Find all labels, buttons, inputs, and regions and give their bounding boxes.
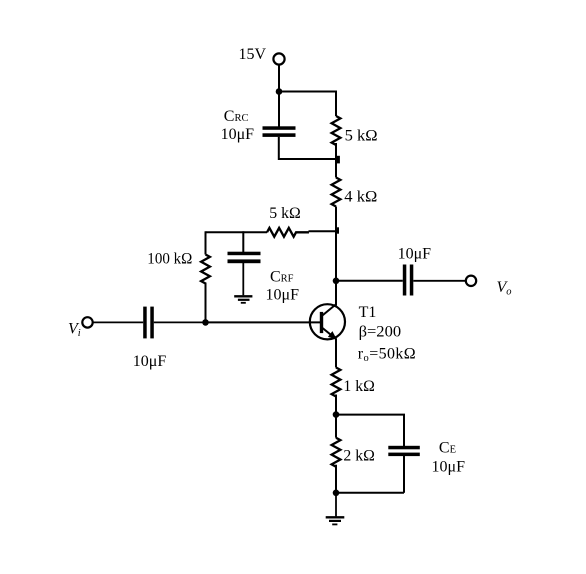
svg-text:10μF: 10μF xyxy=(266,287,300,304)
resistor 5k collector xyxy=(332,116,341,145)
svg-text:10μF: 10μF xyxy=(398,246,432,263)
wire Vi to cap xyxy=(93,321,144,323)
wire out cap to terminal xyxy=(413,280,466,282)
wire cap to base node xyxy=(154,321,206,323)
node collector junction xyxy=(333,278,340,285)
resistor 100k xyxy=(201,231,210,322)
wire to CE top xyxy=(336,415,404,446)
resistor 2k xyxy=(332,415,341,493)
node blob feedback junction xyxy=(336,227,339,233)
capacitor CRC xyxy=(263,126,296,137)
capacitor input 10uF xyxy=(143,307,154,339)
svg-text:5 kΩ: 5 kΩ xyxy=(345,127,378,144)
wire to ground xyxy=(335,493,337,517)
resistor 5k feedback xyxy=(267,228,309,237)
svg-text:10μF: 10μF xyxy=(133,353,167,370)
svg-text:10μF: 10μF xyxy=(221,126,255,143)
wire CRC bottom xyxy=(279,137,336,159)
wire supply top horizontal xyxy=(279,91,337,93)
wire collector xyxy=(335,231,337,305)
capacitor output 10uF xyxy=(403,265,414,296)
svg-text:1 kΩ: 1 kΩ xyxy=(343,378,375,395)
wire base xyxy=(206,321,322,323)
wire emitter down xyxy=(335,339,337,368)
node emitter junction top xyxy=(333,411,340,418)
node emitter junction bottom xyxy=(333,490,340,497)
terminal Vi xyxy=(82,317,92,327)
capacitor CRF xyxy=(228,231,261,295)
wire supply down xyxy=(278,65,280,92)
transistor T1 xyxy=(310,304,345,340)
wire 1k to node xyxy=(335,395,337,415)
svg-text:5 kΩ: 5 kΩ xyxy=(269,205,301,222)
wire CE bottom xyxy=(336,492,404,494)
svg-text:10μF: 10μF xyxy=(432,459,466,476)
terminal 15V xyxy=(273,53,284,64)
wire CRC branch down xyxy=(278,92,280,128)
terminal Vo xyxy=(466,276,476,286)
resistor 4k xyxy=(332,159,341,232)
resistor 1k xyxy=(332,368,341,397)
wire 5k to junction xyxy=(335,143,337,159)
svg-text:T1: T1 xyxy=(359,304,377,321)
ground main xyxy=(326,517,345,524)
svg-text:4 kΩ: 4 kΩ xyxy=(344,189,377,206)
capacitor CE xyxy=(388,446,420,493)
wire feedback left horizontal xyxy=(206,231,268,233)
wire to RC resistor top xyxy=(335,91,337,117)
svg-text:100 kΩ: 100 kΩ xyxy=(147,250,192,267)
node base junction xyxy=(202,319,209,326)
wire collector to out cap xyxy=(336,280,403,282)
node supply junction xyxy=(276,88,283,95)
wire feedback right segment xyxy=(309,230,338,232)
svg-text:15V: 15V xyxy=(239,46,267,63)
svg-text:2 kΩ: 2 kΩ xyxy=(343,447,375,464)
svg-text:β=200: β=200 xyxy=(359,324,402,341)
ground CRF xyxy=(234,296,252,303)
node blob 5k-4k junction xyxy=(336,156,340,164)
